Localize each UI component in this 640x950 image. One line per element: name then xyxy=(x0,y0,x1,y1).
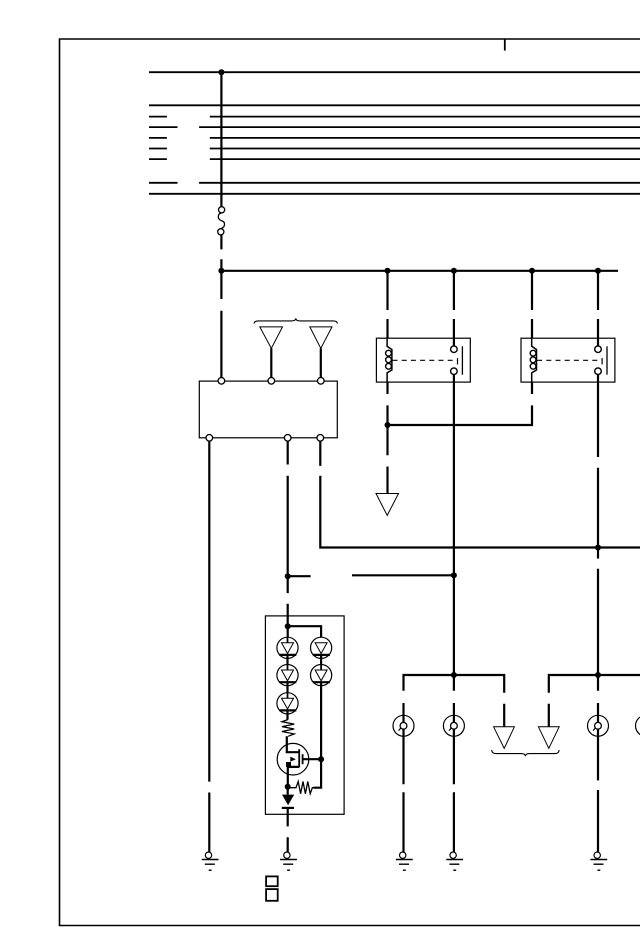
node left group xyxy=(451,672,457,678)
LED unit box xyxy=(265,616,344,814)
U1 bottom pins xyxy=(206,435,324,442)
left lamp group feed xyxy=(404,675,505,727)
lamp L4 (clipped at page edge) xyxy=(636,715,640,736)
wire T1 to U1 xyxy=(270,348,272,378)
source node xyxy=(285,784,291,790)
power line 5 xyxy=(149,137,640,139)
LED D5 xyxy=(311,665,332,686)
off-page arrow (ground side) xyxy=(376,494,399,516)
wire L2 to ground G4 xyxy=(453,729,455,852)
wire U1 right pin down and to page edge xyxy=(320,441,640,547)
node right group xyxy=(595,672,601,678)
wire node to off-page arrow xyxy=(386,467,388,494)
power line 6 xyxy=(149,148,640,150)
wire L3 to ground G5 xyxy=(597,729,599,852)
triangle arrow T1 xyxy=(260,327,283,348)
node where edge wire meets K2 contact wire xyxy=(595,545,601,551)
power line 7 xyxy=(149,158,640,160)
MOSFET Q1 xyxy=(277,736,321,787)
wire into left LED branch xyxy=(287,626,289,637)
ground G2 xyxy=(280,852,297,870)
wire segment to relay contact wire xyxy=(352,574,454,576)
node under K1 coil xyxy=(385,422,391,428)
node on line 1 xyxy=(218,69,224,75)
LED D2 xyxy=(277,665,298,693)
bus junction nodes xyxy=(218,268,601,274)
resistor R1 xyxy=(282,720,294,737)
wire bus to relay K1 coil xyxy=(386,271,388,338)
wire from line 1 to fuse xyxy=(220,72,222,207)
wire K1 contact down to lamps xyxy=(453,375,455,676)
ground G5 xyxy=(590,852,607,870)
bus wire xyxy=(219,270,619,272)
lamp L3 xyxy=(588,715,609,736)
wire fuse to bus (dashed) xyxy=(220,235,222,378)
power line 3 xyxy=(149,116,640,118)
node on relay contact wire xyxy=(451,572,457,578)
off-page arrow A1 xyxy=(494,727,515,749)
power line 9 xyxy=(149,193,640,195)
power line 4 xyxy=(149,126,640,128)
ground G3 xyxy=(396,852,413,870)
zener diode D6 xyxy=(282,787,294,815)
gate node xyxy=(318,756,324,762)
connector square 1 xyxy=(266,876,278,886)
wire K1 coil to node xyxy=(386,382,388,455)
U1 top pins xyxy=(218,378,324,385)
wire down to lamp L3 xyxy=(597,675,599,722)
wire gate node down to R2 xyxy=(314,759,322,788)
node on middle wire xyxy=(285,573,291,579)
power line 8 xyxy=(149,182,640,184)
underbrace for arrows xyxy=(492,750,559,756)
triangle arrow T2 xyxy=(310,327,332,348)
wire L1 to ground G3 xyxy=(402,729,404,852)
ground G1 xyxy=(202,852,219,870)
control unit U1 xyxy=(199,381,337,438)
wire to right LED branch xyxy=(288,626,321,637)
wire bus to relay K1 contact xyxy=(453,271,455,346)
resistor R2 xyxy=(288,782,314,794)
wire D5 to gate node xyxy=(320,682,322,759)
wire bus to relay K2 contact xyxy=(597,271,599,346)
power line 1 xyxy=(149,71,640,73)
LED D3 xyxy=(277,693,298,720)
off-page arrow A2 xyxy=(538,727,559,749)
brace over antenna triangles xyxy=(254,318,337,323)
relay K1 xyxy=(376,338,470,382)
lamp L1 xyxy=(393,715,414,736)
lamp L2 xyxy=(443,715,464,736)
LED D4 xyxy=(311,637,332,664)
relay K2 xyxy=(521,338,615,382)
LED D1 xyxy=(277,637,298,664)
power line 2 xyxy=(149,104,640,106)
wire bus to relay K2 coil xyxy=(531,271,533,338)
node at LED unit input xyxy=(285,623,291,629)
wire K2 contact down to right lamp group xyxy=(597,375,599,676)
fuse F1 xyxy=(218,207,225,235)
connector square 2 xyxy=(266,889,278,901)
wire U1 middle pin down (dashed) xyxy=(287,441,289,626)
wire down middle of left group xyxy=(453,675,455,722)
wire node to K2 coil xyxy=(388,382,533,425)
wire A2 up to right group xyxy=(549,675,640,727)
wire LED unit to ground G2 xyxy=(287,815,289,852)
ground G4 xyxy=(446,852,463,870)
page edge tick xyxy=(504,39,506,51)
wire U1 pin to ground G1 xyxy=(208,441,210,852)
wire stub right of node xyxy=(288,575,311,577)
wire T2 to U1 xyxy=(320,348,322,378)
